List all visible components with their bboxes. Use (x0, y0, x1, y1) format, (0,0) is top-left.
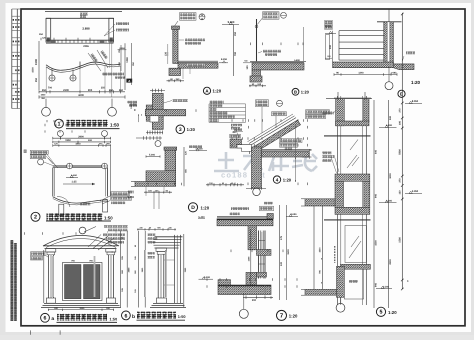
detail 5 box2 right column (364, 181, 370, 207)
detail 2 slope arrow (63, 183, 95, 185)
svg-text:2.550: 2.550 (119, 47, 125, 50)
detail 5 box1 right column (364, 99, 369, 122)
detail 4 bottom left comb (206, 184, 244, 186)
detail B break line (303, 27, 305, 61)
svg-text:3.300: 3.300 (386, 200, 393, 203)
detail A parapet cap (172, 26, 180, 29)
svg-text:a: a (51, 317, 54, 322)
detail E tread lines (339, 30, 384, 32)
detail 2 title text (47, 213, 103, 220)
detail 5 sill inner text (349, 280, 358, 283)
detail 5 mullion left pair (337, 96, 339, 305)
svg-text:1: 1 (58, 122, 61, 128)
detail D extra projection (145, 186, 147, 196)
svg-text:120: 120 (399, 190, 402, 195)
detail 6a left dim chain (43, 250, 45, 303)
svg-text:2300: 2300 (63, 89, 69, 92)
svg-text:1:50: 1:50 (110, 317, 118, 321)
svg-text:9.000: 9.000 (228, 21, 235, 24)
detail E-5 transition lines (337, 92, 339, 100)
detail A bottom dim (167, 80, 185, 82)
detail 1 bottom dim ticks (39, 91, 125, 93)
detail 4 leader box waterproof (272, 112, 287, 116)
detail 7 level mark (286, 215, 298, 217)
detail 5 box2 left column (335, 181, 344, 207)
plan 1 right vertical dim2 (131, 43, 133, 85)
detail 6a title text (57, 314, 107, 321)
detail 1 left dim chain (38, 41, 40, 90)
svg-text:5.400: 5.400 (204, 276, 211, 279)
svg-text:b: b (132, 314, 135, 320)
detail 7 window glass line (261, 232, 263, 277)
detail 4 slab finish lines (262, 148, 312, 150)
detail 7 sill ledge (257, 272, 267, 277)
detail 3 leader text (173, 99, 189, 102)
svg-text:270: 270 (399, 178, 402, 183)
detail 7 bottom slab (218, 285, 271, 295)
detail E left tiny level (325, 57, 332, 59)
vertical ownership text column 1 (10, 240, 13, 321)
detail D top comb ticks (136, 137, 162, 139)
detail 4 label (273, 176, 280, 183)
detail 5 glass diagonal window2 (349, 241, 361, 258)
detail 7 roof finish lines (217, 216, 267, 218)
detail 5 tie lines mid (324, 218, 371, 220)
detail 4 eave curve (249, 148, 252, 155)
svg-text:900: 900 (329, 44, 332, 49)
detail 2 left axis circle (38, 159, 44, 165)
detail 2 axis bubble left (57, 131, 63, 137)
detail 2 top dim row2 (53, 141, 111, 143)
detail 6b base (157, 298, 167, 303)
detail 6a left leader boxes (31, 252, 46, 256)
detail 6a door frame (63, 263, 103, 301)
detail 2 support pier left (59, 204, 64, 215)
detail 4 left gutter profile (237, 145, 252, 152)
svg-text:6.300: 6.300 (386, 124, 393, 127)
svg-text:175: 175 (280, 235, 283, 240)
svg-text:1950: 1950 (65, 139, 71, 142)
svg-text:1:50: 1:50 (104, 216, 113, 221)
detail 5 sill band (340, 264, 370, 269)
detail 7 window mid ties (259, 240, 266, 242)
detail E bottom slab (333, 62, 394, 68)
svg-text:1500: 1500 (248, 256, 251, 262)
detail 5 dim chain outer (388, 100, 390, 308)
detail 5 bottom left slab (305, 289, 337, 295)
detail 4 right boxed texts (280, 139, 303, 143)
detail 4 leader circle (277, 100, 283, 106)
detail 2 support pier right (103, 200, 108, 212)
detail 7 inner dim chain (250, 229, 252, 285)
detail 1 axis bubble left (45, 99, 47, 108)
detail 6b wall top tie (175, 236, 181, 238)
svg-text:1:20: 1:20 (301, 89, 310, 94)
detail 4 right projection line (295, 124, 297, 182)
detail 1 level 2.550 (118, 49, 127, 51)
detail 5 top boxed text (306, 110, 330, 114)
detail 7 right dim chain1 (279, 205, 281, 300)
svg-text:180: 180 (399, 120, 402, 125)
detail D projection lines (153, 194, 155, 210)
right dim ticks (401, 13, 403, 15)
svg-text:1500: 1500 (374, 240, 377, 246)
detail 6a left base (47, 298, 56, 303)
svg-text:8.950: 8.950 (412, 100, 419, 103)
detail E left leader boxes (325, 21, 333, 25)
svg-text:900: 900 (88, 89, 93, 92)
svg-text:3000: 3000 (389, 173, 392, 179)
svg-text:B: B (294, 89, 297, 94)
detail D right level mark (189, 150, 207, 152)
detail 4 floor slab (262, 152, 310, 158)
detail 1 rear wall double line (46, 39, 114, 41)
right level mark upper (405, 103, 422, 105)
detail 3 left cap lower (146, 116, 152, 121)
detail 6b title (122, 311, 131, 320)
svg-text:700: 700 (234, 51, 237, 56)
svg-text:1500: 1500 (32, 67, 35, 73)
detail 7 transom block (257, 249, 272, 255)
detail 1 right pier projection (111, 43, 113, 97)
svg-text:150: 150 (234, 31, 237, 36)
detail E axis line (388, 10, 390, 22)
detail A label (203, 87, 210, 94)
detail 6b left capital texts (148, 234, 156, 237)
detail 7 roof slab (217, 219, 273, 226)
detail D bottom slab (135, 182, 176, 187)
detail 5 wall below window (344, 269, 363, 299)
detail 1 right leader texts (116, 22, 129, 25)
detail 7 projection below slab (245, 293, 247, 297)
detail 6b cornice lines (155, 236, 183, 238)
svg-text:700: 700 (48, 86, 53, 89)
detail 3 slab (145, 110, 185, 116)
detail 6a ornament leader fan (88, 235, 101, 248)
svg-text:8.350: 8.350 (221, 58, 228, 61)
detail 6a eyebrow arch outer (43, 236, 119, 247)
svg-text:6: 6 (124, 313, 127, 319)
svg-text:2: 2 (34, 215, 37, 221)
detail 1 slope rotated texts (90, 53, 98, 62)
detail 2 balcony curved front (53, 197, 108, 203)
svg-text:1:20: 1:20 (187, 127, 196, 132)
svg-text:120: 120 (280, 261, 283, 266)
detail 5 box1 left column (336, 99, 345, 126)
detail A right dim chain (233, 25, 235, 77)
detail 5 tie lines upper (324, 134, 371, 136)
detail A floor slab (178, 63, 218, 68)
detail 6a steps (44, 302, 118, 304)
detail 5 box2 top band (335, 174, 370, 181)
svg-text:1:25: 1:25 (72, 181, 78, 184)
detail A notes list (210, 101, 224, 104)
svg-text:2800: 2800 (128, 267, 131, 273)
detail D top cap (164, 147, 177, 150)
svg-text:2255: 2255 (83, 45, 89, 48)
detail 2 title underline (46, 220, 111, 222)
svg-text:270: 270 (399, 108, 402, 113)
svg-text:4200: 4200 (78, 94, 84, 97)
detail 7 bottom dim (243, 297, 273, 299)
svg-text:3.350: 3.350 (412, 190, 419, 193)
detail 3 wall (152, 93, 163, 129)
detail D slab left lines (131, 181, 135, 183)
detail E right leader text (406, 51, 415, 54)
detail 6a bottom dim (48, 309, 114, 311)
detail 2 plan top wall band (53, 165, 108, 167)
detail 2 title circle (31, 212, 40, 221)
svg-text:900: 900 (374, 193, 377, 198)
detail 5 mullion right pair (362, 96, 364, 305)
left margin small stamp (24, 150, 27, 153)
detail 3 top comb (150, 90, 165, 92)
detail B leader circle (281, 12, 287, 18)
detail 1 title underline (66, 128, 120, 130)
detail 6a right column shaft (108, 255, 110, 298)
detail 6a left capital (46, 249, 56, 252)
detail 6a arch inner (46, 239, 116, 248)
detail 2 column symbol left (67, 163, 73, 169)
detail D upper column (165, 150, 176, 171)
detail 6b steps (153, 302, 183, 304)
detail 7 parapet drip (267, 214, 273, 219)
detail 7 sill block (246, 272, 257, 285)
detail B leader box (263, 12, 280, 19)
detail 6b rear wall lines (174, 235, 176, 303)
detail 6a title underline (57, 321, 118, 323)
plan 1 projection lines (45, 67, 47, 92)
svg-text:2900: 2900 (389, 259, 392, 265)
detail 5 axis bubble bottom (340, 297, 342, 303)
detail 6b left dim chain2 (144, 231, 146, 308)
detail 6a title (41, 313, 50, 322)
detail 2 top dim row3 (53, 145, 111, 147)
svg-text:1:50: 1:50 (178, 315, 186, 319)
detail 1 total dim line (39, 96, 125, 98)
svg-text:4: 4 (276, 177, 279, 182)
detail 2 axis bubble right (102, 131, 108, 137)
detail 7 window frame lines (258, 231, 260, 279)
detail A inner level mark (219, 62, 228, 64)
detail 7 right dim chain2 (286, 205, 288, 300)
detail E left level mark (325, 33, 336, 35)
detail D axis bubble (155, 141, 161, 147)
detail 2 right dim stub (110, 147, 112, 196)
revision strip table (11, 9, 13, 109)
detail 5 slab left band mid (305, 199, 335, 206)
detail A leader line (175, 21, 179, 26)
detail 6a left column shaft (48, 255, 50, 298)
svg-text:5800: 5800 (399, 149, 402, 155)
detail 1 right pier (109, 18, 114, 42)
detail E label circle (398, 90, 405, 97)
detail 2 canopy text (80, 203, 91, 206)
detail 2 left leader boxes (30, 150, 48, 154)
detail 5 right small level bottom (376, 288, 392, 290)
detail A parapet wall (173, 29, 178, 63)
detail 4 left gutter hatch (230, 139, 242, 148)
detail B railing post (256, 19, 258, 62)
svg-text:1-093: 1-093 (391, 72, 398, 75)
detail 6a right dim chain2 (126, 231, 128, 308)
detail 2 column symbol right (102, 163, 108, 169)
vertical ownership text column 2 (14, 243, 17, 321)
detail B bottom dim (249, 85, 266, 87)
detail 6b main pillar (157, 254, 159, 298)
detail 7 wall below roof (248, 226, 257, 250)
detail 5 level mark upper (379, 126, 397, 128)
svg-text:900: 900 (374, 282, 377, 287)
svg-text:1500: 1500 (319, 247, 322, 253)
svg-text:5.600: 5.600 (294, 59, 300, 62)
detail 3 left cap upper (146, 105, 152, 110)
detail 1 title circle (55, 119, 64, 128)
detail 5 box1 bottom band (336, 121, 369, 126)
svg-text:5: 5 (380, 310, 383, 316)
detail 5 window2 dim dashes (334, 246, 336, 263)
detail 1 plan top edge (46, 17, 114, 19)
detail 5 outer wall face lines (313, 206, 315, 289)
revision strip marks (13, 19, 14, 21)
detail 1 drain axis symbol B (72, 70, 74, 75)
detail D right slope text (189, 145, 202, 148)
detail 4 40thick text (285, 148, 293, 151)
detail 3 left texts (130, 103, 137, 106)
detail 6b column hatch shading (144, 250, 146, 297)
detail 6a column shading (52, 256, 54, 297)
detail 4 wall below slab (252, 147, 262, 188)
svg-text:1500: 1500 (41, 94, 47, 97)
detail E wall cap line (377, 21, 402, 23)
detail D middle step (146, 171, 176, 182)
detail 1 drain axis symbol A (51, 69, 53, 75)
svg-text:120: 120 (164, 51, 167, 56)
svg-text:2900: 2900 (78, 135, 84, 138)
detail E slab step right (393, 64, 414, 70)
svg-text:250: 250 (119, 89, 124, 92)
detail 5 top open line (326, 98, 372, 100)
detail 5 glass diagonal window1 (350, 140, 358, 151)
detail 4 sloped finish lines (251, 118, 297, 146)
detail A level mark 9.000 (222, 24, 239, 26)
detail 7 top note texts (231, 207, 249, 210)
detail 1 wavy balcony edge (46, 62, 121, 70)
svg-text:5.400: 5.400 (198, 216, 205, 219)
detail 5 left window board text (322, 112, 334, 115)
detail B label (292, 88, 299, 95)
detail 4 leader stems (261, 107, 263, 133)
detail 1 left pier (46, 18, 51, 42)
svg-text:9.000: 9.000 (128, 196, 135, 199)
detail 2 drain leader texts (100, 196, 110, 201)
svg-text:1500: 1500 (35, 58, 38, 65)
detail 1 axis bubble right (111, 99, 113, 108)
svg-text:1.550: 1.550 (71, 174, 77, 177)
detail 1 top slab text (80, 13, 88, 16)
svg-text:350: 350 (35, 77, 38, 82)
svg-text:12.600: 12.600 (195, 148, 203, 151)
svg-text:2.888: 2.888 (82, 27, 90, 31)
detail 6b title underline (137, 319, 186, 321)
detail B left level (243, 62, 250, 64)
detail 6a right capital (106, 249, 116, 252)
detail 5 label (376, 307, 385, 316)
detail 6b capital molding (156, 248, 167, 251)
detail 7 left level mark (199, 278, 214, 280)
detail E hatched wall (384, 22, 394, 65)
svg-text:1:20: 1:20 (289, 313, 298, 318)
detail 6a door leaf left (65, 265, 82, 299)
detail A wall note texts (185, 39, 205, 42)
svg-text:D: D (191, 205, 195, 211)
detail 5 leader texts upper left (322, 152, 332, 155)
detail 7 axis bubble (243, 293, 245, 309)
detail 4 sloped roof band (253, 120, 301, 152)
detail E axis bubble (388, 66, 390, 82)
detail 6a door leaf right (84, 265, 101, 299)
detail E left dim chain (332, 31, 334, 62)
detail 6a ornament texts (103, 234, 125, 237)
svg-text:400: 400 (88, 139, 93, 142)
detail 4 left leader texts (231, 124, 242, 127)
detail A floor finish lines (178, 60, 218, 62)
detail 4 leader box railing (256, 100, 269, 107)
detail E left post (326, 35, 330, 60)
svg-text:600: 600 (374, 149, 377, 154)
detail D bottom dim (144, 191, 172, 193)
detail 1 right leader A-02 (102, 73, 124, 76)
detail 6a entablature (44, 245, 118, 247)
detail B note texts (263, 50, 281, 53)
right level mark lower (405, 193, 422, 195)
detail A leader circle (199, 14, 205, 20)
detail 5 box2 bottom band (335, 207, 370, 214)
detail A projection lines below (182, 68, 184, 79)
detail A slab box text (187, 63, 206, 66)
svg-text:1500: 1500 (399, 237, 402, 243)
svg-text:9.050: 9.050 (291, 213, 298, 216)
svg-text:1:50: 1:50 (110, 122, 120, 127)
detail 6a right base (107, 298, 116, 303)
detail 3 left comb (138, 115, 140, 122)
detail 5 leader arrows (331, 157, 337, 173)
detail 7 label (277, 310, 287, 320)
detail 1 right dim chain (124, 43, 126, 90)
svg-text:1200: 1200 (126, 57, 129, 63)
svg-text:120: 120 (246, 65, 249, 70)
svg-text:0.300: 0.300 (383, 285, 390, 288)
svg-text:1:20: 1:20 (411, 80, 421, 85)
svg-text:350: 350 (109, 89, 114, 92)
detail 6b title text (137, 312, 176, 319)
plan 1 bottom-right note rows (127, 101, 137, 104)
detail 3 recess box (150, 116, 159, 122)
svg-text:200: 200 (252, 299, 257, 302)
detail 7 left tiny texts (230, 213, 240, 216)
right dim line (401, 14, 403, 289)
detail 5 sill wall column (337, 266, 345, 297)
detail 1 right chain2 texts (120, 45, 122, 71)
svg-text:1:20: 1:20 (213, 89, 222, 94)
detail 5 dim chain inner (373, 100, 375, 308)
detail 2 plan side walls (52, 168, 54, 197)
svg-text:1:20: 1:20 (283, 177, 292, 182)
svg-text:5.000: 5.000 (149, 154, 156, 157)
detail 5 level mark mid (379, 202, 397, 204)
detail E tread left edge (338, 31, 340, 60)
detail 2 door swing arc (57, 196, 70, 207)
